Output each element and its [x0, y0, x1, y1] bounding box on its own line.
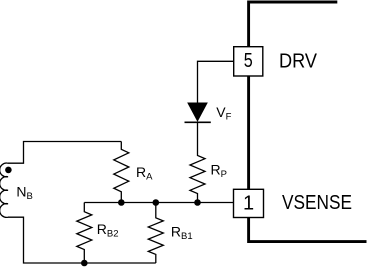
wire from NB top to RA top [8, 142, 121, 164]
pin 5 box [234, 47, 263, 76]
resistor RB1 [148, 203, 163, 264]
wire bottom rail (NB bottom to RB1 bottom) [8, 217, 156, 263]
wire from pin 5 to diode anode [198, 61, 234, 103]
pin 1 box [234, 189, 264, 217]
transformer winding NB [0, 163, 8, 217]
svg-text:VSENSE: VSENSE [282, 192, 352, 214]
svg-text:1: 1 [243, 192, 254, 214]
svg-text:5: 5 [244, 50, 253, 72]
resistor RP (with lead from diode cathode) [190, 122, 205, 202]
resistor RA [114, 142, 129, 203]
IC outline (top, left, bottom edges) [249, 2, 367, 242]
diode VF triangle [188, 103, 207, 121]
node wire (RA/RB2/RB1/RP to VSENSE) [84, 202, 233, 204]
junction dot RB1 top [153, 199, 160, 206]
svg-text:DRV: DRV [279, 51, 318, 73]
diode VF cathode bar [185, 121, 211, 123]
junction dot RB2 bottom [81, 260, 88, 267]
junction dot RP bottom [194, 199, 201, 206]
polarity dot NB [5, 167, 12, 174]
junction dot RA bottom [118, 199, 125, 206]
resistor RB2 [77, 203, 92, 264]
